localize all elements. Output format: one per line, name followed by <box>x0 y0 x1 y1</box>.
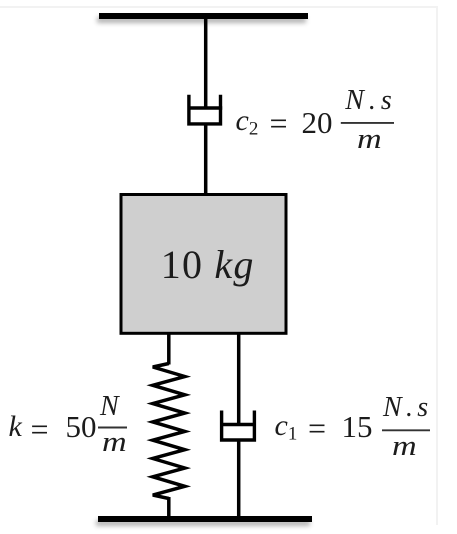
label k unit numerator N <box>100 393 119 421</box>
faint figure border right edge <box>436 6 438 525</box>
fraction bar of c1 label <box>382 429 430 431</box>
label c1 equals <box>308 412 326 444</box>
wire: mass to spring k <box>167 333 171 365</box>
damper C2 piston plate <box>188 106 222 109</box>
fixed support bar (top) <box>99 13 308 19</box>
label c2 unit denominator m <box>357 126 377 154</box>
damper C2 cylinder cup <box>189 95 221 124</box>
wire: damper c1 to bottom bar <box>237 440 241 517</box>
label c2 equals <box>270 107 288 139</box>
label k symbol <box>9 412 22 442</box>
label c2 value 20 <box>302 107 333 138</box>
label c1 value 15 <box>342 411 373 442</box>
faint figure border top edge <box>0 6 437 8</box>
mass block M <box>121 195 286 334</box>
mass value label 10 kg <box>161 245 255 285</box>
fraction bar of k label <box>98 427 127 429</box>
label c2 symbol <box>236 106 259 139</box>
wire: damper c2 to mass <box>204 124 208 195</box>
label c2 unit numerator N.s <box>345 87 397 115</box>
wire: mass to damper c1 piston <box>237 333 241 425</box>
fraction bar of c2 label <box>341 122 394 124</box>
label c1 symbol <box>275 411 298 444</box>
label k equals <box>31 413 49 445</box>
fixed support bar (bottom) <box>98 516 312 523</box>
wire: top bar to damper c2 piston <box>204 16 208 108</box>
damper C1 cylinder cup <box>222 411 255 441</box>
spring k zigzag <box>153 364 185 499</box>
label k value 50 <box>66 411 97 442</box>
wire: spring k to bottom bar <box>167 497 171 517</box>
label c1 unit denominator m <box>392 433 412 461</box>
damper C1 piston plate <box>221 423 256 426</box>
label k unit denominator m <box>102 429 122 457</box>
label c1 unit numerator N.s <box>383 394 432 422</box>
